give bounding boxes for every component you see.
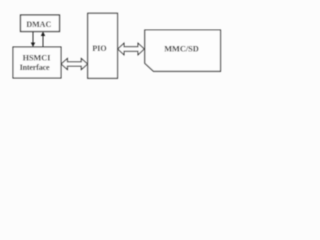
svg-text:MMC/SD: MMC/SD (164, 45, 199, 54)
svg-text:HSMCI: HSMCI (23, 54, 51, 63)
svg-text:Interface: Interface (20, 63, 50, 72)
svg-text:PIO: PIO (92, 44, 106, 53)
bus arrow HSMCI-PIO (hollow double arrow) (61, 59, 87, 70)
block DMAC (21, 15, 60, 32)
bus arrow PIO-MMC/SD (hollow double arrow) (118, 43, 144, 54)
block MMC/SD card (chamfered corner) (145, 30, 221, 71)
block PIO (88, 13, 118, 78)
wire: up arrow HSMCI to DMAC (42, 36, 44, 48)
svg-text:DMAC: DMAC (26, 20, 51, 29)
wire: down arrow DMAC to HSMCI (32, 32, 34, 44)
block HSMCI Interface (13, 47, 61, 78)
